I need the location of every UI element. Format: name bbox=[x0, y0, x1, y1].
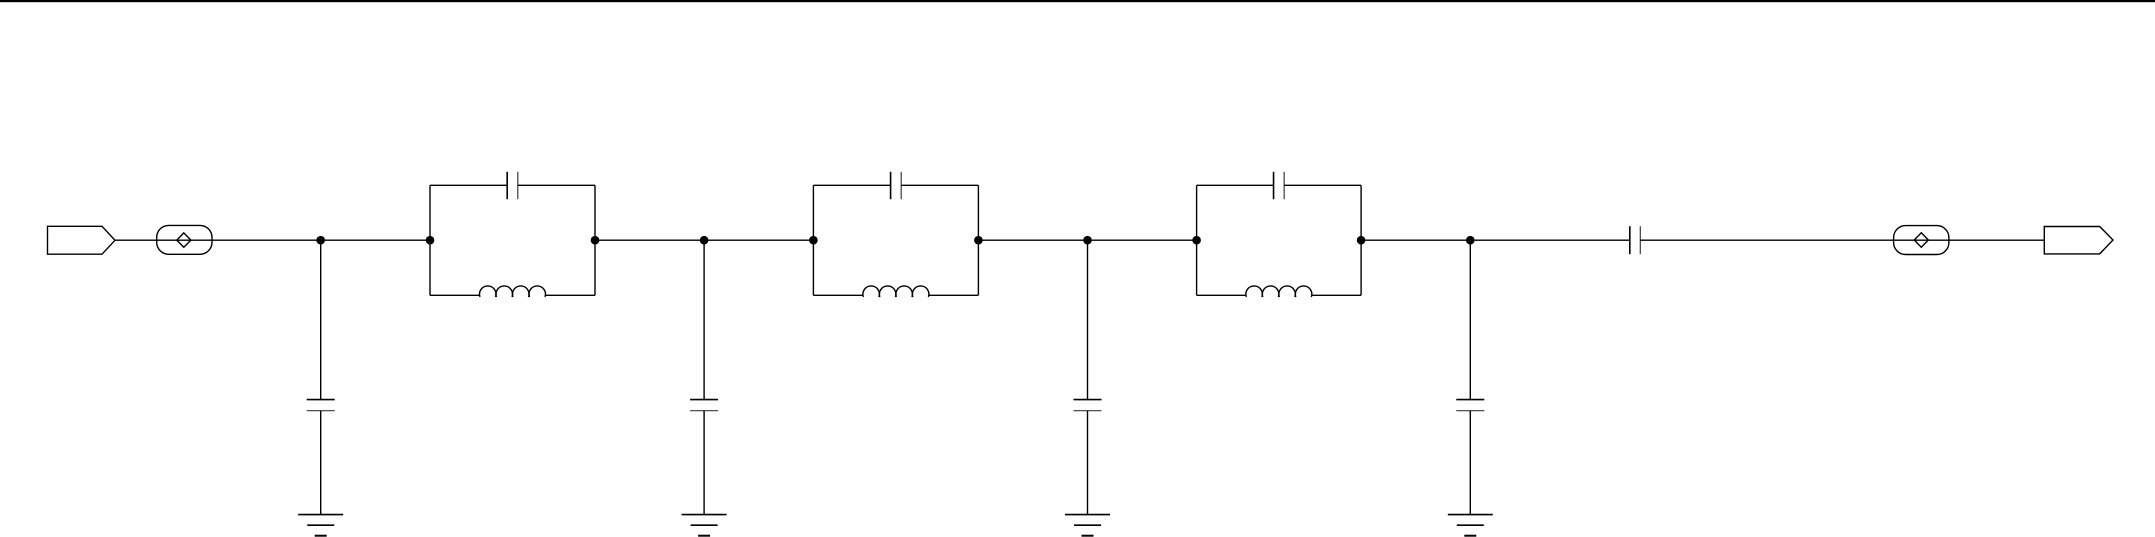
parallel LC tank 3: right edge wire bbox=[1360, 185, 1362, 295]
wire top-right of tank 1 bbox=[518, 184, 595, 186]
wire node C down to capacitor C5 bbox=[1087, 240, 1089, 399]
input port P1 bbox=[48, 226, 116, 254]
wire top-left of tank 2 bbox=[813, 184, 890, 186]
wire bottom-left of tank 2 bbox=[813, 294, 863, 296]
ground bbox=[682, 515, 727, 536]
probe PRB2 diamond bbox=[1914, 233, 1928, 247]
junction node B bbox=[700, 236, 709, 245]
parallel LC tank 2: left edge wire bbox=[812, 185, 814, 295]
wire bottom-left of tank 3 bbox=[1197, 294, 1247, 296]
capacitor C3 (shunt) bbox=[690, 400, 718, 411]
junction node A bbox=[316, 236, 325, 245]
wire bottom-left of tank 1 bbox=[430, 294, 480, 296]
wire tank3 to node D bbox=[1361, 239, 1630, 241]
wire capacitor C3 to ground bbox=[703, 411, 705, 515]
wire tank2 to node C bbox=[978, 239, 1196, 241]
ground bbox=[1448, 515, 1493, 536]
junction dot tank 1 left bbox=[426, 236, 435, 245]
junction dot tank 3 right bbox=[1357, 236, 1366, 245]
junction node C bbox=[1083, 236, 1092, 245]
wire bottom-right of tank 2 bbox=[928, 294, 978, 296]
wire node D down to capacitor C7 bbox=[1469, 240, 1471, 399]
ground bbox=[1065, 515, 1110, 536]
wire input to node A bbox=[115, 239, 430, 241]
junction node D bbox=[1466, 236, 1475, 245]
capacitor C2 (tank 1 top) bbox=[507, 172, 518, 199]
wire top-left of tank 1 bbox=[430, 184, 507, 186]
parallel LC tank 1: right edge wire bbox=[594, 185, 596, 295]
top title bar bbox=[0, 0, 2155, 3]
wire tank1 to node B bbox=[595, 239, 813, 241]
wire top-right of tank 2 bbox=[901, 184, 978, 186]
wire C8 to output port bbox=[1640, 239, 2044, 241]
probe PRB2 (oval) bbox=[1894, 226, 1949, 255]
capacitor C6 (tank 3 top) bbox=[1274, 172, 1285, 199]
wire node B down to capacitor C3 bbox=[703, 240, 705, 399]
wire capacitor C1 to ground bbox=[320, 411, 322, 515]
probe PRB1 diamond bbox=[177, 233, 191, 247]
capacitor C8 (series) bbox=[1630, 226, 1641, 254]
wire node A down to capacitor C1 bbox=[320, 240, 322, 399]
capacitor C1 (shunt) bbox=[307, 400, 335, 411]
ground bbox=[298, 515, 343, 536]
inductor L2 (tank 2 bottom) bbox=[863, 286, 929, 297]
junction dot tank 1 right bbox=[591, 236, 600, 245]
inductor L1 (tank 1 bottom) bbox=[480, 286, 546, 297]
capacitor C7 (shunt) bbox=[1456, 400, 1484, 411]
wire bottom-right of tank 3 bbox=[1311, 294, 1361, 296]
junction dot tank 2 right bbox=[974, 236, 983, 245]
junction dot tank 3 left bbox=[1192, 236, 1201, 245]
parallel LC tank 1: left edge wire bbox=[429, 185, 431, 295]
wire capacitor C7 to ground bbox=[1469, 411, 1471, 515]
capacitor C4 (tank 2 top) bbox=[891, 172, 902, 199]
wire capacitor C5 to ground bbox=[1087, 411, 1089, 515]
capacitor C5 (shunt) bbox=[1074, 400, 1102, 411]
wire top-right of tank 3 bbox=[1284, 184, 1361, 186]
probe PRB1 (oval) bbox=[157, 225, 212, 254]
wire top-left of tank 3 bbox=[1197, 184, 1274, 186]
parallel LC tank 2: right edge wire bbox=[977, 185, 979, 295]
junction dot tank 2 left bbox=[809, 236, 818, 245]
parallel LC tank 3: left edge wire bbox=[1196, 185, 1198, 295]
inductor L3 (tank 3 bottom) bbox=[1246, 286, 1312, 297]
output port P2 bbox=[2044, 227, 2113, 254]
wire bottom-right of tank 1 bbox=[545, 294, 595, 296]
